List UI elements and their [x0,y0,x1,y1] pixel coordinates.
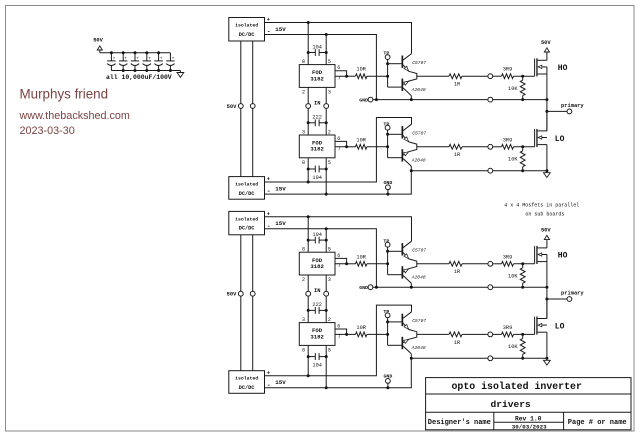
svg-text:HO: HO [558,64,568,73]
power arrow 50V (cap bank) [97,46,102,50]
svg-text:3R9: 3R9 [503,254,513,260]
svg-text:3R9: 3R9 [503,137,513,143]
svg-text:1R: 1R [454,82,461,88]
transistor C5707 (NPN) (A LO) [388,133,402,135]
svg-text:C5707: C5707 [412,247,426,253]
svg-text:IN: IN [314,288,320,294]
svg-text:DC/DC: DC/DC [239,226,255,232]
svg-text:50V: 50V [541,228,551,234]
svg-text:A2048: A2048 [411,157,426,163]
mosfet HO (A) [534,59,536,77]
wire: pin 3 input (A) [325,87,327,103]
svg-text:GND: GND [383,374,392,380]
svg-text:IN: IN [314,100,320,106]
ground (LO mosfet B) [546,358,548,360]
capacitor 104 (A HO supply) [308,52,315,54]
svg-text:www.thebackshed.com: www.thebackshed.com [19,110,130,122]
svg-text:isolated: isolated [235,23,258,29]
transistor A2048 (PNP) (A HO) [402,79,404,91]
svg-text:LO: LO [555,135,565,144]
wire: HO source down (B) [546,255,548,319]
connector pin source (B HO) [488,285,493,290]
test point TP (B HO) [385,242,390,247]
svg-text:Designer's name: Designer's name [428,419,491,427]
wire: emitter out (A LO) [417,146,449,148]
node primary (B) [545,298,548,301]
ground (cap bank) [179,71,181,73]
gnd test pin (A HO) [368,97,373,102]
wire: +15V rail HO (A) [265,23,412,54]
wire: chip2 pin 8 to +15V (A LO) [307,158,309,182]
connector pin 50V-b (B) [250,291,255,296]
wire: +15V rail HO (B) [265,217,412,241]
transistor C5707 (NPN) (B HO) [388,250,402,252]
transistor A2048 (PNP) (A LO) [402,149,404,161]
isolated DC/DC converter (B bottom) [229,371,265,394]
svg-text:C5707: C5707 [412,318,426,324]
svg-text:5: 5 [328,59,331,65]
resistor 10K (A LO gate pulldown) [522,147,524,151]
bracket pins 6/7 (B HO) [335,258,347,263]
svg-text:10R: 10R [356,254,366,260]
svg-text:1R: 1R [454,269,461,275]
wire: -15V rail LO (A) [265,171,412,194]
svg-text:+: + [136,56,139,61]
capacitor 104 (B HO supply) [308,239,315,241]
wire: IN to chip2 pin 2 (A) [325,108,327,135]
resistor 3R9 (A HO) [493,75,502,77]
capacitor C3 10,000uF (bank) [134,51,137,54]
transistor A2048 (PNP) (B HO) [402,266,404,278]
resistor 10R (B LO) [347,333,356,335]
opto driver U-A1 FOD 3182 (HO) [299,65,335,88]
gnd test pin (B LO) [386,379,391,384]
power arrow 50V (B) [544,235,549,239]
svg-text:+: + [113,56,116,61]
capacitor C5 10,000uF (bank) [157,51,160,54]
svg-text:10K: 10K [508,273,518,279]
svg-text:104: 104 [312,175,322,181]
capacitor 222 (A input) [308,122,315,124]
svg-text:3182: 3182 [310,333,324,340]
svg-text:10K: 10K [508,156,518,162]
isolated DC/DC converter (B top) [229,211,265,234]
wire: 50V feed left (B) [240,235,242,291]
gnd test pin (A LO) [386,185,391,190]
svg-text:104: 104 [312,362,322,368]
svg-text:isolated: isolated [235,216,258,222]
wire: LO return line (B) [411,357,488,359]
connector pin IN-b (B) [324,291,329,296]
resistor 10R (A LO) [347,146,356,148]
svg-text:DC/DC: DC/DC [239,385,255,391]
wire: +15V rail LO (A) [265,118,412,183]
svg-text:GND: GND [383,180,392,186]
svg-text:10R: 10R [356,67,366,73]
capacitor 104 (B LO supply) [308,356,315,358]
connector pin LO source (A) [488,168,493,173]
opto driver U-B1 FOD 3182 (HO) [299,252,335,275]
svg-text:15V: 15V [275,186,286,193]
wire: chip2 pin 5 to -15V (A LO) [325,158,327,194]
capacitor C4 10,000uF (bank) [145,51,148,54]
svg-text:6: 6 [337,65,340,71]
svg-text:2: 2 [328,129,331,135]
wire: LO return line (A) [411,170,488,172]
wire: 50V feed right (B) [252,235,254,291]
svg-text:3: 3 [302,129,305,135]
mosfet HO (B) [534,246,536,264]
wire: TP stub + base bus (A LO) [387,130,389,134]
svg-text:DC/DC: DC/DC [239,32,255,38]
svg-text:15V: 15V [275,379,286,386]
svg-text:A2048: A2048 [411,274,426,280]
svg-text:+: + [124,56,127,61]
svg-text:HO: HO [558,252,568,261]
connector pin 50V-b (A) [250,104,255,109]
wire: TP stub + base bus (B LO) [387,318,389,322]
svg-text:DC/DC: DC/DC [239,191,255,197]
svg-text:10K: 10K [508,86,518,92]
isolated DC/DC converter (A bottom) [229,177,265,200]
connector pin IN-a (B) [306,291,311,296]
wire: LO source down (B) [546,332,548,358]
connector pin IN-b (A) [324,104,329,109]
capacitor C6 10,000uF (bank) [169,53,171,61]
wire: emitter junction bracket (B HO) [409,259,417,269]
svg-text:isolated: isolated [235,376,258,382]
wire: chip2 pin 8 to +15V (B LO) [307,345,309,375]
connector pin 50V-a (B) [238,291,243,296]
connector pin 50V-a (A) [238,104,243,109]
svg-text:2: 2 [302,277,305,283]
svg-text:opto isolated inverter: opto isolated inverter [452,381,582,392]
svg-text:50V: 50V [93,38,103,44]
resistor 3R9 (B LO) [493,333,502,335]
wire: IN to chip2 pin 3 (A) [307,108,309,135]
wire: -15V rail HO (A) [265,35,377,100]
gnd test pin (B HO) [368,285,373,290]
transistor C5707 (NPN) (A HO) [388,63,402,65]
wire: -15V rail LO (B) [265,358,412,387]
test point TP (A HO) [385,55,390,60]
svg-text:+: + [148,56,151,61]
opto driver U-A2 FOD 3182 (LO) [299,135,335,158]
svg-text:C5707: C5707 [412,60,426,66]
wire: HO source/gnd line (B) [373,286,488,288]
svg-text:3: 3 [328,89,331,95]
connector pin LO source (B) [488,356,493,361]
node primary (A) [545,110,548,113]
svg-text:6: 6 [337,136,340,142]
wire: emitter out (B LO) [417,333,449,335]
svg-text:3182: 3182 [310,75,324,82]
svg-text:3: 3 [328,277,331,283]
opto driver U-B2 FOD 3182 (LO) [299,323,335,346]
svg-text:6: 6 [337,253,340,259]
svg-text:Page # or name: Page # or name [568,419,627,427]
svg-text:222: 222 [312,114,322,120]
svg-text:3182: 3182 [310,146,324,153]
svg-text:GND: GND [359,285,368,291]
svg-text:15V: 15V [275,26,286,33]
resistor 1R (B LO) [449,332,462,337]
wire: chip2 pin 5 to -15V (B LO) [325,345,327,387]
wire: TP stub + base bus (B HO) [387,247,389,251]
bracket pins 6/7 (A LO) [335,141,347,146]
wire: HO source/gnd line (A) [373,99,488,101]
svg-text:5: 5 [328,347,331,353]
svg-text:2: 2 [302,89,305,95]
svg-text:3R9: 3R9 [503,67,513,73]
wire: emitter junction bracket (A LO) [409,142,417,152]
svg-text:5: 5 [328,247,331,253]
svg-text:8: 8 [302,59,305,65]
capacitor C2 10,000uF (bank) [122,51,125,54]
wire: pin 2 input (B) [307,275,309,291]
resistor 1R (A HO) [449,74,462,79]
resistor 3R9 (A LO) [493,146,502,148]
svg-text:10R: 10R [356,325,366,331]
transistor C5707 (NPN) (B LO) [388,321,402,323]
wire: emitter junction bracket (A HO) [409,71,417,81]
svg-text:+: + [172,56,175,61]
svg-text:222: 222 [312,302,322,308]
wire: LO drain up (B) [546,299,548,319]
wire: pin 2 input (A) [307,87,309,103]
wire: pin 8 to +15V (B HO) [307,217,309,252]
svg-text:primary: primary [561,290,584,296]
wire: pin 5 to -15V (A HO) [325,35,327,65]
connector pin gate (A HO) [488,74,493,79]
svg-text:104: 104 [312,232,322,238]
svg-text:A2048: A2048 [411,345,426,351]
resistor 10R (B HO) [347,263,356,265]
wire: HO source down (A) [546,67,548,131]
bracket pins 6/7 (A HO) [335,71,347,76]
mosfet LO (B) [534,317,536,335]
capacitor 104 (A LO supply) [308,168,315,170]
resistor 1R (A LO) [449,144,462,149]
svg-text:8: 8 [302,347,305,353]
svg-text:1R: 1R [454,152,461,158]
wire: cap bank top bus [100,52,171,54]
resistor 10K (B LO gate pulldown) [522,334,524,338]
svg-text:1R: 1R [454,340,461,346]
svg-text:primary: primary [561,103,584,109]
capacitor C1 10,000uF (bank) [110,51,113,54]
svg-text:50V: 50V [541,40,551,46]
connector pin gate (B HO) [488,261,493,266]
svg-text:30/03/2023: 30/03/2023 [512,423,547,430]
svg-text:7: 7 [338,76,341,82]
svg-text:TP: TP [383,238,389,244]
title block frame [426,378,631,430]
svg-text:3182: 3182 [310,263,324,270]
svg-text:104: 104 [312,45,322,51]
svg-text:3: 3 [302,317,305,323]
connector pin gate (B LO) [488,332,493,337]
resistor 10K (A HO gate pulldown) [522,76,524,80]
svg-text:2023-03-30: 2023-03-30 [20,125,75,137]
test point TP (B LO) [385,313,390,318]
wire: emitter junction bracket (B LO) [409,330,417,340]
wire: cap bank bottom bus [111,70,180,72]
wire: +15V rail LO (B) [265,305,412,376]
transistor A2048 (PNP) (B LO) [402,337,404,349]
wire: emitter out (B HO) [417,263,449,265]
svg-text:isolated: isolated [235,182,258,188]
wire: pin 8 to +15V (A HO) [307,23,309,65]
power arrow 50V (A) [544,48,549,52]
svg-text:50V: 50V [227,104,237,110]
bracket pins 6/7 (B LO) [335,329,347,334]
test point TP (A LO) [385,125,390,130]
svg-text:GND: GND [359,98,368,104]
resistor 10K (B HO gate pulldown) [522,264,524,268]
svg-text:TP: TP [383,121,389,127]
connector pin gate (A LO) [488,144,493,149]
svg-text:Rev 1.0: Rev 1.0 [515,415,542,422]
svg-text:50V: 50V [227,292,237,298]
svg-text:7: 7 [338,263,341,269]
wire: LO drain up (A) [546,111,548,130]
wire: LO source down (A) [546,145,548,171]
wire: -15V rail HO (B) [265,229,377,287]
svg-text:+: + [160,56,163,61]
svg-text:drivers: drivers [491,399,532,410]
svg-text:6: 6 [337,323,340,329]
svg-text:7: 7 [338,146,341,152]
svg-text:TP: TP [383,51,389,57]
svg-text:10K: 10K [508,344,518,350]
connector pin IN-a (A) [306,104,311,109]
svg-text:8: 8 [302,160,305,166]
resistor 1R (B HO) [449,261,462,266]
svg-text:C5707: C5707 [412,130,426,136]
wire: IN to chip2 pin 3 (B) [307,296,309,323]
resistor 10R (A HO) [347,75,356,77]
wire: emitter out (A HO) [417,75,449,77]
isolated DC/DC converter (A top) [229,18,265,42]
svg-text:7: 7 [338,334,341,340]
svg-text:all 10,000uF/100V: all 10,000uF/100V [106,74,172,81]
svg-text:3R9: 3R9 [503,325,513,331]
svg-text:Murphys friend: Murphys friend [20,86,109,101]
resistor 3R9 (B HO) [493,263,502,265]
wire: 50V feed left (A) [240,41,242,104]
svg-text:8: 8 [302,247,305,253]
svg-text:10R: 10R [356,137,366,143]
connector pin source (A HO) [488,97,493,102]
svg-text:2: 2 [328,317,331,323]
svg-text:TP: TP [383,309,389,315]
svg-text:A2048: A2048 [411,87,426,93]
svg-text:LO: LO [555,323,565,332]
wire: TP stub + base bus (A HO) [387,60,389,64]
ground (LO mosfet A) [546,171,548,173]
wire: pin 3 input (B) [325,275,327,291]
svg-text:15V: 15V [275,220,286,227]
svg-text:5: 5 [328,160,331,166]
mosfet LO (A) [534,129,536,147]
wire: pin 5 to -15V (B HO) [325,229,327,252]
wire: 50V feed right (A) [252,41,254,104]
svg-text:on sub boards: on sub boards [525,212,564,218]
capacitor 222 (B input) [308,309,315,311]
svg-text:4 x 4 Mosfets in parallel: 4 x 4 Mosfets in parallel [504,202,579,208]
wire: IN to chip2 pin 2 (B) [325,296,327,323]
